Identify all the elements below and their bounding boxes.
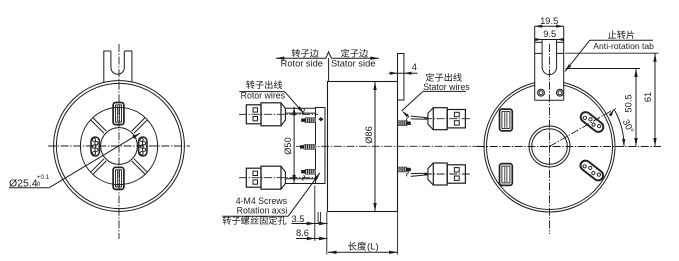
right view: anti-rotation tab bracket	[535, 42, 563, 100]
left view: mounting fork (clevis) at top	[104, 51, 132, 83]
left view: keyed slot N (top)	[113, 103, 124, 125]
right view: housing inner rim circle	[487, 84, 613, 210]
svg-text:4-M4 Screws: 4-M4 Screws	[236, 196, 288, 206]
left view: rotor wire hole oval W	[91, 137, 99, 156]
svg-text:50.5: 50.5	[624, 94, 634, 112]
svg-text:Anti-rotation tab: Anti-rotation tab	[593, 41, 654, 51]
left view: housing outer rim circle	[54, 81, 185, 212]
rotor wires leader	[239, 91, 284, 93]
dimension 50.5	[635, 69, 637, 147]
svg-text:0: 0	[37, 181, 41, 188]
stator connector bottom: terminal stub	[407, 168, 411, 171]
stator connector top: terminal stub	[407, 122, 411, 125]
header 定子边 label	[341, 49, 368, 58]
section view: anti-rotation tab (side view)	[398, 54, 404, 101]
label 止转片	[608, 30, 634, 38]
svg-text:19.5: 19.5	[540, 16, 558, 26]
rotor plate key diamond top	[318, 117, 323, 121]
stator connector bottom: wires	[411, 175, 428, 177]
left view: rotor wire hole oval E	[139, 137, 147, 156]
right view: housing outer rim circle	[484, 81, 615, 212]
left view: keyed slot S (bottom)	[113, 167, 124, 189]
rotor connector bottom: terminal stub	[301, 170, 305, 173]
svg-text:Rotor side: Rotor side	[281, 59, 323, 69]
right view: horizontal centerline	[477, 146, 661, 148]
svg-text:8.6: 8.6	[296, 228, 309, 238]
extension line slot bottom	[566, 68, 641, 70]
left view: four diagonal spoke rib pairs	[134, 120, 147, 133]
dimension 61	[654, 53, 656, 146]
svg-text:9.5: 9.5	[543, 29, 556, 39]
extension lines below rotor plate	[314, 186, 316, 242]
section view: stator body outline	[328, 82, 398, 212]
svg-text:Rotation axsi: Rotation axsi	[237, 205, 288, 215]
rotor connector bottom: plug and housing	[239, 177, 318, 179]
label 定子出线	[426, 73, 462, 82]
dimension Ø25.4 leader	[49, 133, 140, 187]
section view: main horizontal centerline	[296, 145, 482, 147]
left view: horizontal centerline	[48, 145, 190, 147]
extension line tab top	[565, 52, 659, 54]
dimension 30° arc	[614, 109, 624, 146]
dimension Ø50	[293, 107, 295, 184]
right view: keyed slot lower-left	[500, 164, 513, 186]
right view: stator wire hole oval lower-right	[578, 159, 605, 183]
rotor connector top: terminal stub	[301, 119, 305, 122]
svg-text:Stator side: Stator side	[331, 59, 375, 69]
dimension 4 (tab thickness)	[389, 72, 418, 74]
svg-text:61: 61	[643, 92, 653, 102]
anti-rotation tab leader	[590, 39, 653, 41]
stator connector top: wires	[411, 116, 428, 118]
svg-text:+0.1: +0.1	[37, 174, 50, 181]
rotor plate: center terminal stub	[300, 145, 304, 148]
stator connector top: plug and housing	[424, 118, 471, 120]
svg-text:(L): (L)	[367, 242, 379, 253]
left view: vertical centerline	[118, 44, 120, 239]
dimension Ø86	[374, 82, 376, 212]
left view: housing inner rim circle	[56, 83, 181, 208]
rotation axis leader	[222, 215, 288, 217]
svg-text:Ø50: Ø50	[283, 137, 293, 155]
label 转子出线	[246, 80, 282, 88]
svg-text:Stator wires: Stator wires	[423, 82, 470, 92]
right view: tab screw hole left	[538, 89, 545, 96]
dimension 长度(L)	[397, 212, 399, 255]
right view: center bore inner circle	[532, 129, 568, 165]
left view: center bore circle	[101, 128, 138, 165]
section view: rotor plate	[316, 108, 326, 184]
header 转子边 label	[292, 49, 319, 57]
right view: keyed slot upper-left	[500, 109, 513, 131]
svg-text:4: 4	[412, 62, 417, 72]
stator wires leader	[423, 90, 466, 92]
rotor connector top: plug and housing	[239, 113, 318, 115]
header rotor/stator side arrow line	[276, 52, 379, 58]
svg-text:3.5: 3.5	[292, 214, 305, 224]
right view: vertical centerline	[549, 44, 551, 234]
svg-text:Ø86: Ø86	[364, 126, 374, 144]
right view: center bore outer circle	[529, 126, 570, 167]
right view: 30° radial centerline	[550, 108, 616, 146]
left view: rotor flange circle	[80, 107, 157, 184]
right view: tab screw hole right	[557, 89, 564, 96]
right view: stator wire hole oval upper-right	[579, 110, 606, 134]
rotor connector bottom: wires	[285, 183, 315, 185]
rotor connector top: wires	[285, 107, 315, 109]
label 转子螺丝固定孔	[223, 216, 287, 225]
stator connector bottom: plug and housing	[424, 173, 471, 175]
